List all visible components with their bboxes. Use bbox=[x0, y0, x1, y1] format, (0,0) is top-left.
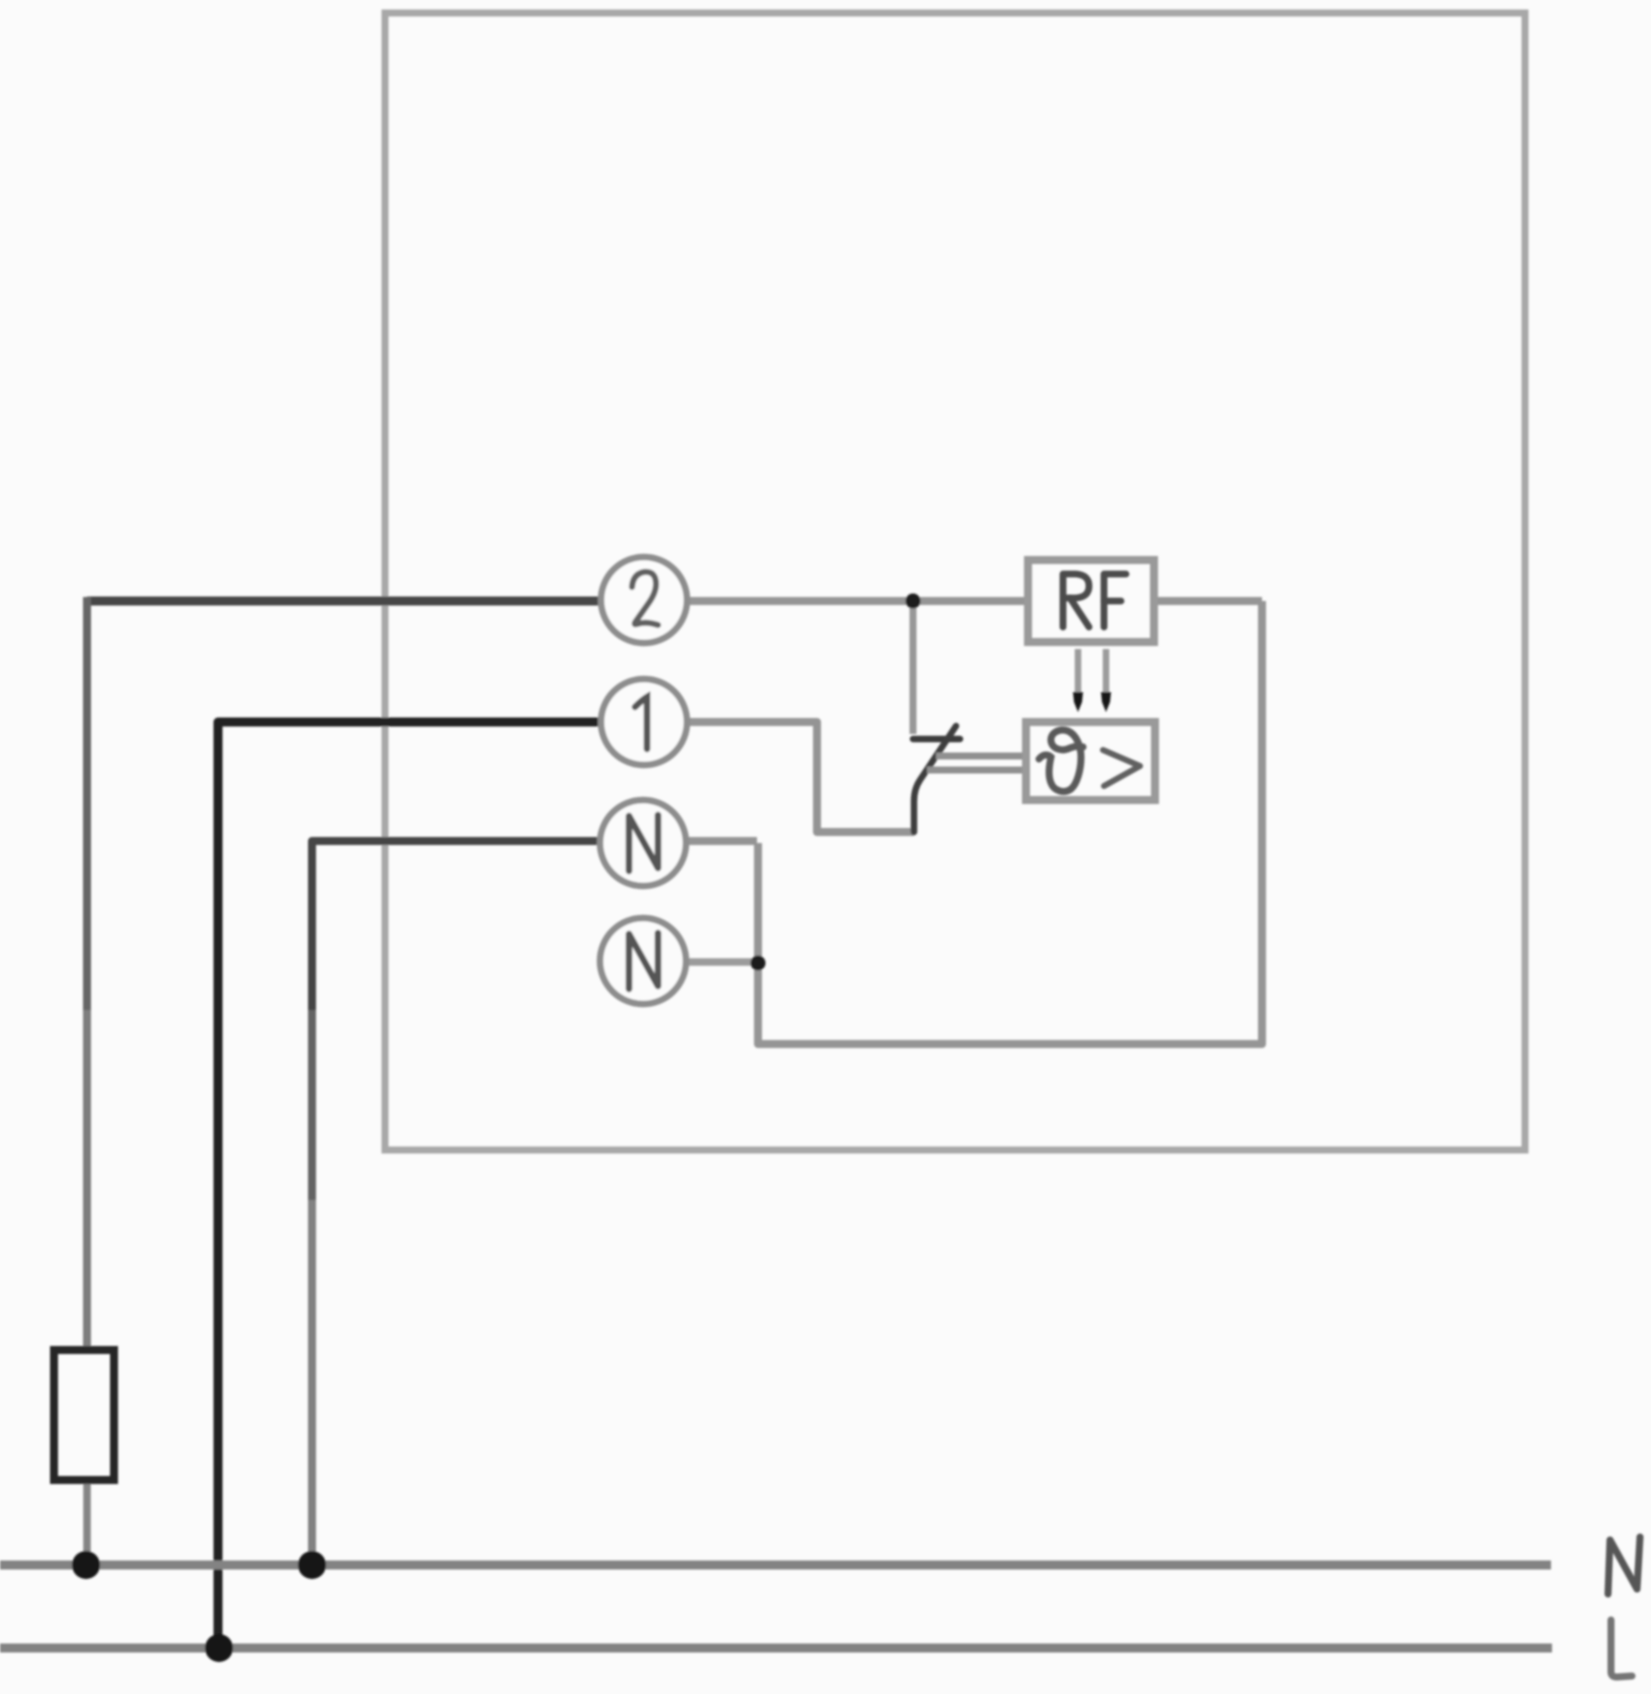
wire: N loop bottom (thermostat internal return) bbox=[758, 601, 1262, 1044]
switch fixed contact from node bbox=[910, 601, 917, 734]
wire: RF box to right loop bbox=[1154, 597, 1262, 605]
junction: N loop bbox=[751, 956, 766, 971]
wire: terminal 1 to switch pivot bbox=[687, 722, 914, 832]
net label N bbox=[1608, 1537, 1640, 1594]
N bus bbox=[0, 1561, 1551, 1570]
net label L bbox=[1611, 1620, 1632, 1677]
junction: wire N on N bus bbox=[298, 1551, 326, 1579]
wire: terminal 1 to L bus bbox=[218, 722, 600, 1649]
label theta bbox=[1039, 730, 1083, 791]
label N lower bbox=[629, 933, 658, 989]
device enclosure bbox=[385, 13, 1525, 1150]
arrow RF to thermostat (left) bbox=[1073, 649, 1083, 712]
label N upper bbox=[629, 815, 658, 871]
junction: node on wire 2 bbox=[906, 594, 921, 609]
label RF bbox=[1063, 574, 1126, 627]
label 1 bbox=[635, 697, 647, 749]
terminal 1 bbox=[601, 679, 687, 765]
wire: terminal 2 to external load bbox=[87, 597, 601, 606]
mechanical link to thermostat bbox=[936, 753, 1028, 760]
thermostat box (temperature switch) bbox=[1026, 722, 1155, 800]
label greater-than bbox=[1103, 750, 1140, 786]
terminal N lower bbox=[600, 918, 686, 1004]
wire: terminal N upper to N bus bbox=[312, 841, 600, 1010]
load resistor R1 bbox=[54, 1350, 114, 1480]
wire: terminal 2 to RF box bbox=[687, 597, 1028, 605]
junction: wire 1 on L bus bbox=[205, 1634, 233, 1662]
L bus bbox=[0, 1644, 1552, 1653]
terminal N upper bbox=[600, 800, 686, 886]
arrow RF to thermostat (right) bbox=[1101, 649, 1111, 712]
junction: load on N bus bbox=[72, 1551, 100, 1579]
RF box U1 bbox=[1028, 560, 1154, 642]
switch blade bbox=[914, 726, 956, 832]
wire: terminal N lower to junction bbox=[686, 958, 758, 966]
wire: terminal N upper to loop bbox=[686, 837, 757, 845]
label 2 bbox=[632, 572, 658, 625]
terminal 2 bbox=[601, 557, 687, 643]
